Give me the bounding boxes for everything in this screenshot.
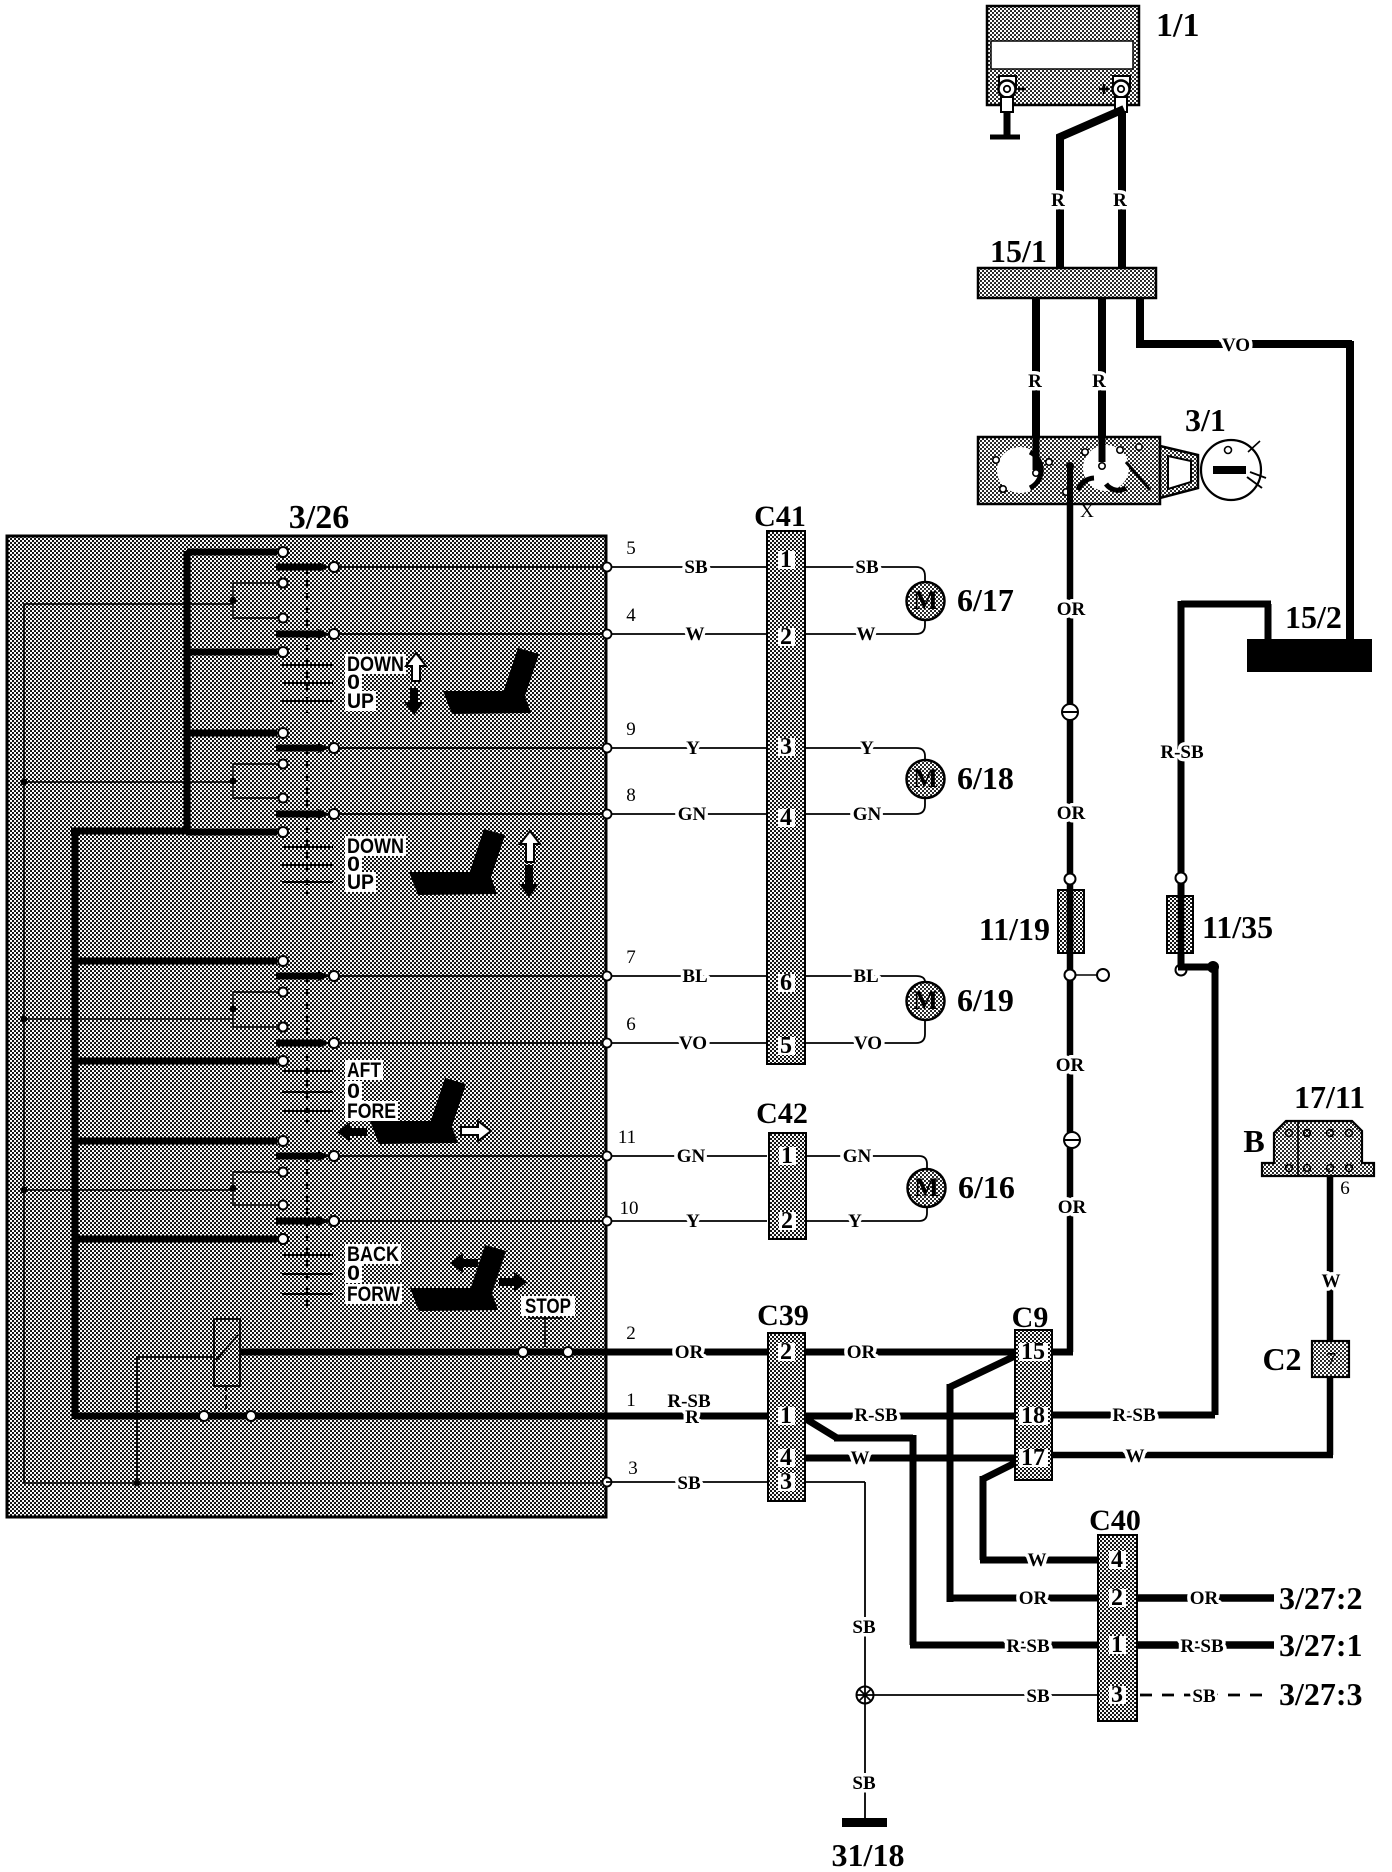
- wire R 15/1 leg1: [1032, 298, 1040, 437]
- ignition switch cavities: [997, 447, 1043, 493]
- switch linkage dashed: [306, 976, 308, 1123]
- stop switch blade: [216, 1335, 238, 1360]
- wire R-SB C39 to C9: [805, 1413, 1015, 1420]
- svg-text:10: 10: [620, 1198, 639, 1219]
- bus bar lower: [72, 831, 79, 1419]
- wire BL C41 pin6 to motor 6/19: [805, 976, 925, 982]
- battery minus sign: [1018, 88, 1026, 91]
- wire SB dashed C40 to 3/27:3: [1140, 1694, 1270, 1697]
- switch pole contact y634: [276, 631, 320, 638]
- svg-text:2: 2: [780, 1339, 792, 1365]
- svg-text:3: 3: [780, 734, 792, 760]
- switch linkage dashed: [306, 748, 308, 894]
- svg-text:7: 7: [626, 947, 636, 968]
- wire OR block to C39: [606, 1349, 767, 1356]
- svg-text:C41: C41: [754, 500, 806, 533]
- svg-text:17/11: 17/11: [1294, 1079, 1365, 1115]
- svg-text:OR: OR: [1058, 1197, 1087, 1218]
- wire W C2 to C9 17: [1052, 1377, 1333, 1455]
- wire R battery right vertical: [1118, 112, 1126, 268]
- svg-text:M: M: [913, 764, 938, 793]
- svg-text:B: B: [1243, 1123, 1264, 1159]
- svg-text:R-SB: R-SB: [1006, 1636, 1050, 1657]
- C9 pin numbers: [1019, 1343, 1048, 1361]
- connector 17/11 body: [1262, 1121, 1374, 1176]
- wire SB to C40 pin3: [873, 1694, 1098, 1696]
- motor 6/18: [907, 760, 945, 798]
- wire OR diagonal C9-15 down: [947, 1355, 1098, 1602]
- switch pole contact y1221: [276, 1218, 320, 1225]
- switch linkage dashed: [306, 567, 308, 713]
- svg-text:2: 2: [626, 1323, 636, 1344]
- svg-text:C2: C2: [1262, 1341, 1301, 1377]
- svg-text:15/2: 15/2: [1285, 599, 1342, 635]
- svg-text:6: 6: [626, 1014, 636, 1035]
- ignition switch small holes: [993, 457, 999, 463]
- svg-text:GN: GN: [853, 804, 882, 825]
- wire neutral top branch: [24, 603, 233, 605]
- switch neutral bracket: [233, 583, 278, 618]
- wire OR C39 to C9: [805, 1349, 1015, 1356]
- wire VO from 15/1: [1136, 298, 1352, 639]
- wire VO C41 pin5 to motor 6/19: [805, 1020, 925, 1043]
- C42 pin numbers: [779, 1147, 796, 1165]
- svg-text:11/19: 11/19: [979, 911, 1050, 947]
- svg-text:Y: Y: [848, 1211, 862, 1232]
- svg-text:4: 4: [780, 805, 792, 831]
- svg-text:SB: SB: [677, 1473, 701, 1494]
- svg-text:1: 1: [626, 1390, 636, 1411]
- svg-text:W: W: [1322, 1271, 1341, 1292]
- wire W diagonal C9-17 down: [980, 1462, 1098, 1560]
- svg-text:3/27:1: 3/27:1: [1279, 1627, 1363, 1663]
- ground symbol 31/18: [842, 1818, 887, 1827]
- svg-text:31/18: 31/18: [832, 1837, 905, 1872]
- svg-text:6/16: 6/16: [958, 1169, 1015, 1205]
- svg-text:SB: SB: [855, 557, 879, 578]
- svg-text:11: 11: [618, 1127, 636, 1148]
- crossing symbol 1: [1062, 704, 1078, 720]
- svg-text:M: M: [913, 586, 938, 615]
- svg-text:Y: Y: [860, 738, 874, 759]
- svg-text:3/1: 3/1: [1185, 402, 1226, 438]
- ignition key symbol: [1201, 440, 1261, 500]
- svg-text:BL: BL: [853, 966, 878, 987]
- switch pole contact y1043: [276, 1040, 320, 1047]
- wire R-SB from 15/2: [1181, 601, 1271, 900]
- svg-text:SB: SB: [1192, 1686, 1216, 1707]
- ignition internal X stub: [1067, 466, 1073, 504]
- svg-text:18: 18: [1021, 1403, 1045, 1429]
- svg-text:3/26: 3/26: [289, 499, 349, 536]
- wire Y C42 pin2 to motor 6/16: [806, 1207, 927, 1221]
- svg-text:SB: SB: [852, 1773, 876, 1794]
- svg-text:1: 1: [780, 1403, 792, 1429]
- wire R-SB elbow to vertical: [1178, 953, 1215, 1415]
- svg-text:VO: VO: [679, 1033, 707, 1054]
- wire GN C41 pin4 to motor 6/18: [805, 798, 925, 814]
- svg-text:GN: GN: [843, 1146, 872, 1167]
- svg-text:GN: GN: [677, 1146, 706, 1167]
- fuse 11/19 terminal bottom: [1065, 970, 1076, 981]
- wire neutral branch sw3: [24, 1018, 233, 1020]
- switch branch fixed contact y652: [187, 649, 277, 656]
- arrow right outline SW3: [461, 1121, 491, 1141]
- svg-text:OR: OR: [847, 1342, 876, 1363]
- switch neutral bracket: [233, 992, 278, 1027]
- stop switch box: [214, 1319, 240, 1386]
- svg-text:R: R: [1092, 371, 1106, 392]
- motor 6/19: [907, 982, 945, 1020]
- ignition switch contact stubs: [1033, 437, 1040, 470]
- switch pole contact y567: [276, 564, 320, 571]
- wire Y pin9: [612, 747, 767, 749]
- seat icon SW4: [410, 1288, 498, 1311]
- arrow up outline SW2: [520, 831, 540, 862]
- svg-text:6/18: 6/18: [957, 760, 1014, 796]
- svg-text:1: 1: [781, 1143, 793, 1169]
- crossing symbol 2: [1064, 1132, 1080, 1148]
- svg-text:8: 8: [626, 785, 636, 806]
- switch neutral bracket: [233, 1172, 278, 1205]
- wire OR inside block: [240, 1349, 606, 1356]
- wire BL pin7: [612, 975, 767, 977]
- seat icon SW2: [409, 872, 497, 895]
- wire R 15/1 leg2: [1098, 298, 1106, 437]
- motor 6/16: [908, 1169, 946, 1207]
- switch branch fixed contact y1141: [75, 1138, 277, 1145]
- fuse 11/35: [1167, 896, 1193, 953]
- wire W C39 to C9: [805, 1455, 1015, 1462]
- svg-text:STOP: STOP: [525, 1294, 571, 1318]
- svg-text:FORW: FORW: [347, 1282, 401, 1306]
- svg-text:VO: VO: [1222, 335, 1250, 356]
- battery negative terminal: [999, 76, 1016, 88]
- switch position labels: [345, 1060, 383, 1080]
- svg-text:W: W: [686, 624, 705, 645]
- arrow up outline SW1: [406, 653, 426, 681]
- wire W from 17/11 pin6: [1327, 1176, 1334, 1341]
- fuse box 15/1: [978, 268, 1156, 298]
- motor 6/17: [907, 582, 945, 620]
- svg-text:6/19: 6/19: [957, 982, 1014, 1018]
- wire Y pin10: [612, 1220, 767, 1222]
- svg-text:3: 3: [1111, 1682, 1123, 1708]
- fuse 11/19 side tap: [1076, 974, 1097, 976]
- wire neutral thin vertical: [23, 604, 25, 1483]
- wire R block to C39: [606, 1413, 767, 1420]
- wire OR C40 to 3/27:2: [1137, 1594, 1274, 1602]
- ignition switch 3/1 body: [978, 437, 1160, 504]
- svg-text:C39: C39: [757, 1299, 809, 1332]
- battery plus sign: [1099, 88, 1109, 91]
- svg-text:7: 7: [1326, 1349, 1336, 1371]
- arrow left solid SW4: [450, 1253, 478, 1273]
- connector C2 body: [1312, 1341, 1349, 1377]
- svg-text:SB: SB: [684, 557, 708, 578]
- battery 1/1 body: [987, 6, 1139, 105]
- bus elbow: [71, 828, 190, 835]
- relay outline box: [137, 1357, 214, 1483]
- wire SB pin5: [612, 566, 767, 568]
- arrow down solid SW1: [404, 688, 424, 715]
- switch pole contact y814: [276, 811, 320, 818]
- svg-text:VO: VO: [854, 1033, 882, 1054]
- svg-text:GN: GN: [678, 804, 707, 825]
- svg-text:17: 17: [1021, 1445, 1045, 1471]
- switch branch fixed contact y1061: [75, 1058, 277, 1065]
- svg-text:OR: OR: [1019, 1588, 1048, 1609]
- svg-text:OR: OR: [675, 1342, 704, 1363]
- svg-text:R-SB: R-SB: [854, 1405, 898, 1426]
- wire R battery diagonal: [1060, 109, 1124, 268]
- svg-text:M: M: [913, 986, 938, 1015]
- fuse 11/19: [1058, 890, 1084, 953]
- wire VO pin6: [612, 1042, 767, 1044]
- block edge pin circles: [603, 563, 612, 572]
- svg-text:OR: OR: [1056, 1055, 1085, 1076]
- svg-text:R-SB: R-SB: [1160, 742, 1204, 763]
- svg-text:5: 5: [626, 538, 636, 559]
- svg-text:W: W: [857, 624, 876, 645]
- arrow right solid SW4: [499, 1272, 527, 1292]
- wire R inside block: [75, 1413, 606, 1420]
- svg-text:FORE: FORE: [347, 1099, 396, 1123]
- svg-text:1: 1: [780, 547, 792, 573]
- switch branch fixed contact y552: [187, 549, 277, 556]
- wire Y C41 pin3 to motor 6/18: [805, 748, 925, 760]
- connector C39 body: [768, 1333, 805, 1501]
- svg-text:5: 5: [780, 1033, 792, 1059]
- svg-text:SB: SB: [1026, 1686, 1050, 1707]
- svg-text:6: 6: [780, 970, 792, 996]
- switch branch fixed contact y961: [75, 958, 277, 965]
- battery ground symbol: [990, 135, 1020, 140]
- svg-text:2: 2: [1111, 1585, 1123, 1611]
- wire SB bottom thin: [24, 1482, 606, 1484]
- wire SB C41 pin1 to motor 6/17: [805, 567, 925, 582]
- svg-text:W: W: [851, 1448, 870, 1469]
- svg-text:OR: OR: [1057, 599, 1086, 620]
- switch pole contact y1156: [276, 1153, 320, 1160]
- svg-text:R-SB: R-SB: [1112, 1405, 1156, 1426]
- wire SB C39-3 down: [805, 1482, 865, 1818]
- wire OR vertical: [1067, 504, 1074, 1352]
- label STOP: [521, 1296, 575, 1316]
- stop contact circles: [518, 1347, 528, 1357]
- bus bar upper: [184, 551, 191, 834]
- wire R-SB diagonal C39-1 down: [806, 1419, 1098, 1645]
- connector C40 body: [1098, 1535, 1137, 1721]
- junction symbol SB: [857, 1687, 874, 1704]
- wire SB block to C39: [606, 1481, 767, 1483]
- svg-text:R: R: [685, 1407, 699, 1428]
- svg-text:9: 9: [626, 719, 636, 740]
- svg-text:4: 4: [780, 1445, 792, 1471]
- svg-text:C9: C9: [1012, 1301, 1049, 1334]
- svg-text:6/17: 6/17: [957, 582, 1014, 618]
- wire W C41 pin2 to motor 6/17: [805, 620, 925, 634]
- svg-text:4: 4: [626, 605, 636, 626]
- svg-text:2: 2: [781, 1208, 793, 1234]
- svg-text:X: X: [1080, 501, 1094, 522]
- stop switch linkage dashed: [225, 1386, 227, 1413]
- wire R-SB C40 to 3/27:1: [1137, 1641, 1274, 1649]
- control unit 3/26 block body: [7, 536, 606, 1517]
- C39 pin numbers: [778, 1343, 795, 1361]
- wire neutral branch sw2: [24, 781, 233, 783]
- wire W pin4: [612, 633, 767, 635]
- svg-text:3/27:3: 3/27:3: [1279, 1676, 1363, 1712]
- C40 pin numbers: [1109, 1551, 1126, 1569]
- wire GN C42 pin1 to motor 6/16: [806, 1156, 927, 1169]
- connector C42 body: [769, 1133, 806, 1239]
- switch branch fixed contact y733: [187, 730, 277, 737]
- connector C9 body: [1015, 1330, 1052, 1480]
- svg-text:UP: UP: [347, 870, 374, 894]
- switch linkage dashed: [306, 1156, 308, 1306]
- wire OR C9 to vertical: [1052, 1349, 1073, 1356]
- ignition switch arcs: [1030, 452, 1041, 488]
- switch position labels: [345, 654, 406, 674]
- connector C41 body: [767, 531, 805, 1064]
- junction 15/2: [1247, 639, 1372, 672]
- svg-text:M: M: [914, 1173, 939, 1202]
- seat icon SW1: [443, 691, 531, 714]
- battery ground wire: [1004, 112, 1011, 136]
- wire R-SB C9 right: [1052, 1412, 1215, 1419]
- battery white stripe: [991, 41, 1133, 69]
- switch position labels: [345, 836, 406, 856]
- arrow down solid SW2: [519, 865, 539, 897]
- svg-text:C40: C40: [1089, 1504, 1141, 1537]
- svg-text:W: W: [1126, 1446, 1145, 1467]
- svg-text:W: W: [1028, 1550, 1047, 1571]
- svg-text:15/1: 15/1: [990, 233, 1047, 269]
- ignition connector trapezoid: [1160, 446, 1198, 498]
- C41 pin numbers: [778, 551, 795, 569]
- svg-text:C42: C42: [756, 1097, 808, 1130]
- svg-text:3/27:2: 3/27:2: [1279, 1580, 1363, 1616]
- svg-text:Y: Y: [686, 738, 700, 759]
- switch branch fixed contact y832: [187, 829, 277, 836]
- wire GN pin11: [612, 1155, 767, 1157]
- switch pole contact y976: [276, 973, 320, 980]
- fuse 11/19 terminal top: [1065, 874, 1076, 885]
- svg-text:R-SB: R-SB: [1180, 1636, 1224, 1657]
- switch branch fixed contact y1239: [75, 1236, 277, 1243]
- svg-text:OR: OR: [1190, 1588, 1219, 1609]
- seat icon SW3: [370, 1121, 458, 1144]
- svg-text:1: 1: [1111, 1632, 1123, 1658]
- switch position labels: [345, 1244, 401, 1264]
- fuse 11/35 terminal bottom: [1176, 965, 1187, 976]
- arrow left solid SW3: [337, 1122, 367, 1142]
- svg-text:BL: BL: [682, 966, 707, 987]
- svg-text:OR: OR: [1057, 803, 1086, 824]
- svg-text:6: 6: [1340, 1178, 1350, 1199]
- svg-text:4: 4: [1111, 1547, 1123, 1573]
- switch pole contact y748: [276, 745, 320, 752]
- svg-text:R: R: [1113, 190, 1127, 211]
- svg-text:15: 15: [1021, 1339, 1045, 1365]
- svg-text:UP: UP: [347, 689, 374, 713]
- svg-text:11/35: 11/35: [1202, 909, 1273, 945]
- svg-text:Y: Y: [686, 1211, 700, 1232]
- svg-text:SB: SB: [852, 1617, 876, 1638]
- svg-text:2: 2: [780, 624, 792, 650]
- svg-text:3: 3: [628, 1458, 638, 1479]
- svg-text:3: 3: [780, 1469, 792, 1495]
- relay contact circles: [199, 1411, 209, 1421]
- 17/11 holes: [1286, 1130, 1293, 1137]
- wire neutral branch sw4: [24, 1189, 233, 1191]
- wire GN pin8: [612, 813, 767, 815]
- svg-text:1/1: 1/1: [1156, 7, 1199, 44]
- battery positive terminal: [1113, 76, 1130, 88]
- fuse 11/35 terminal top: [1176, 873, 1187, 884]
- svg-text:R: R: [1051, 190, 1065, 211]
- svg-text:R: R: [1028, 371, 1042, 392]
- switch neutral bracket: [233, 764, 278, 798]
